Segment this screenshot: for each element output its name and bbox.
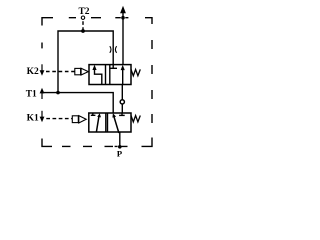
wire valve V2 to port P [119, 132, 121, 146]
svg-text:T2: T2 [78, 7, 89, 17]
node T2 junction dot [81, 29, 85, 33]
port T1 arrow [40, 88, 45, 99]
valve V1 left position flow path with arrow [92, 65, 101, 85]
valve V2 pilot actuator [72, 116, 86, 123]
port T1 label [26, 90, 37, 100]
enclosure dashed border bottom edge [42, 139, 128, 147]
node P border junction dot [118, 145, 122, 149]
wire tank manifold T2/T1 [58, 31, 113, 93]
svg-text:K1: K1 [27, 113, 39, 123]
port K2 arrow [40, 64, 45, 75]
port K1 label [27, 113, 39, 123]
valve V1 body boxes [89, 65, 131, 85]
valve V2 body boxes [89, 113, 131, 132]
svg-text:T1: T1 [26, 90, 37, 100]
enclosure dashed border right edge [142, 40, 153, 146]
valve V1 spring [131, 69, 140, 75]
port K1 arrow [40, 111, 45, 122]
port P label [117, 149, 123, 159]
valve V1 right position blocked port [109, 65, 117, 69]
port K2 label [27, 67, 39, 77]
wire K1 pilot dashed line [46, 118, 72, 120]
orifice restrictor on T-line [110, 46, 117, 53]
valve V1 pilot actuator [75, 68, 89, 75]
enclosure dashed border left edge [41, 43, 43, 49]
node A border junction dot [121, 16, 125, 20]
wire valve V1 to check ball [121, 85, 123, 100]
wire check ball to valve V2 [121, 104, 123, 113]
valve V1 right position through path with arrow [121, 65, 125, 85]
valve V2 right position flow path with arrow [112, 113, 119, 133]
wire T2 pilot dashed stub [82, 21, 84, 30]
wire A line into valve V1 [122, 11, 124, 66]
valve V2 right position blocked port [119, 113, 125, 115]
port T2 circle [81, 16, 84, 19]
wire T1 line [42, 93, 113, 113]
check ball [120, 100, 124, 104]
valve V2 spring [131, 116, 140, 122]
valve V2 left position blocked port [91, 113, 96, 115]
wire K2 pilot dashed line [46, 71, 75, 73]
svg-text:P: P [117, 149, 123, 159]
enclosure dashed border top edge [42, 18, 152, 26]
node T1 junction dot [56, 91, 60, 95]
port A arrow [120, 6, 126, 13]
svg-text:K2: K2 [27, 67, 39, 77]
valve V2 left position flow path with arrow [96, 113, 101, 132]
port T2 label [78, 7, 89, 17]
